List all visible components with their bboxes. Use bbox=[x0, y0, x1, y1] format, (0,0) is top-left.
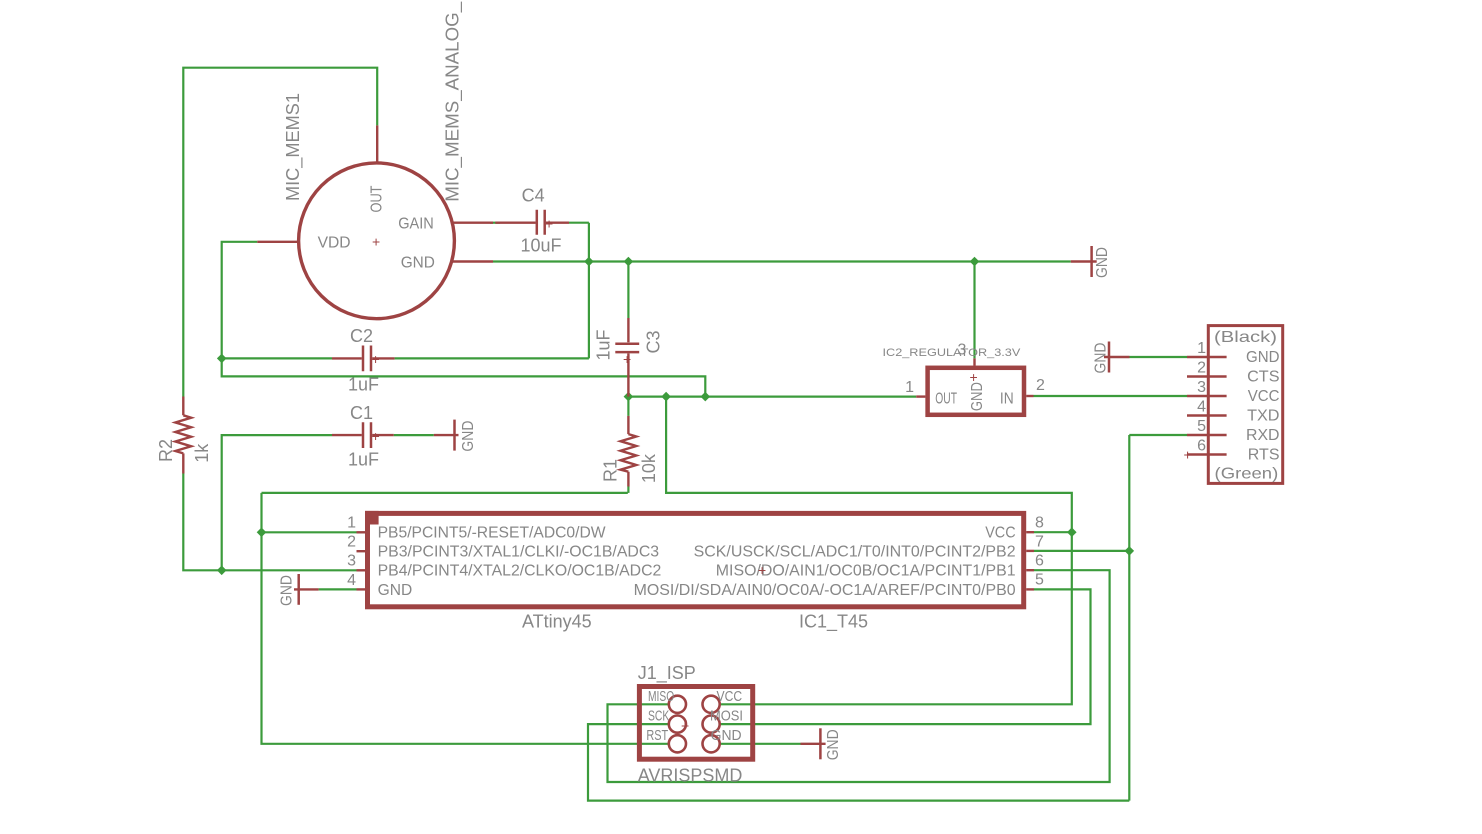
svg-text:1uF: 1uF bbox=[348, 375, 379, 395]
wire riser x588.9 C4 elbow to C2 bbox=[588, 223, 590, 359]
pin 8 stub of IC1 bbox=[1026, 531, 1034, 533]
svg-text:VCC: VCC bbox=[1248, 388, 1280, 405]
svg-text:C1: C1 bbox=[350, 403, 373, 423]
svg-text:PB5/PCINT5/-RESET/ADC0/DW: PB5/PCINT5/-RESET/ADC0/DW bbox=[378, 525, 607, 542]
capacitor C3 bbox=[615, 318, 639, 397]
pin 4 stub of IC1 bbox=[357, 588, 366, 590]
junction node RESET bbox=[257, 528, 267, 538]
wire serial GND pin bbox=[1130, 356, 1188, 358]
resistor R2 bbox=[175, 397, 191, 474]
svg-text:(Black): (Black) bbox=[1214, 329, 1277, 346]
svg-text:GND: GND bbox=[460, 421, 477, 452]
svg-text:AVRISPSMD: AVRISPSMD bbox=[638, 766, 743, 786]
ground symbol at IC1 pin 4 bbox=[279, 574, 319, 606]
junction node GND at C3 bbox=[624, 257, 634, 267]
wire net PB1: IC pin 6 to J1 MISO bbox=[608, 570, 1110, 782]
svg-text:6: 6 bbox=[1035, 552, 1044, 569]
pin pad SCK of J1 bbox=[669, 716, 686, 733]
svg-text:+: + bbox=[372, 428, 380, 444]
svg-text:+: + bbox=[545, 216, 553, 232]
svg-text:GAIN: GAIN bbox=[398, 216, 434, 233]
wire net 3V3: mic VDD down, across to rail bbox=[222, 242, 706, 397]
wire C4 right elbow bbox=[569, 222, 589, 224]
pin 2 stub of IC1 bbox=[357, 550, 366, 552]
pin 6 stub of X1 bbox=[1187, 453, 1227, 455]
pin 5 stub of X1 bbox=[1187, 434, 1227, 436]
svg-text:MOSI: MOSI bbox=[710, 708, 743, 725]
svg-text:CTS: CTS bbox=[1247, 369, 1279, 386]
svg-text:GND: GND bbox=[378, 582, 413, 599]
junction node C2/3V3 bbox=[217, 354, 227, 364]
svg-text:SCK: SCK bbox=[648, 708, 669, 725]
svg-text:VCC: VCC bbox=[985, 525, 1015, 542]
regulator IC2 bbox=[928, 368, 1024, 415]
wire regulator IN to serial VCC bbox=[1034, 395, 1188, 397]
svg-text:+: + bbox=[758, 562, 766, 578]
pin 3 stub of IC2 bbox=[973, 358, 975, 365]
wire mic GAIN to C4 bbox=[490, 222, 500, 224]
svg-text:IC2_REGULATOR_3.3V: IC2_REGULATOR_3.3V bbox=[883, 347, 1022, 359]
pin pad MOSI of J1 bbox=[703, 716, 720, 733]
svg-text:3: 3 bbox=[1197, 379, 1206, 396]
svg-text:GND: GND bbox=[1094, 247, 1111, 278]
svg-text:GND: GND bbox=[1246, 349, 1280, 366]
junction node PB4 bbox=[217, 566, 227, 576]
svg-text:OUT: OUT bbox=[368, 185, 385, 212]
wire net 3V3 rail to regulator OUT bbox=[628, 396, 916, 398]
svg-text:MIC_MEMS_ANALOG_: MIC_MEMS_ANALOG_ bbox=[443, 1, 464, 202]
svg-text:PB3/PCINT3/XTAL1/CLKI/-OC1B/AD: PB3/PCINT3/XTAL1/CLKI/-OC1B/ADC3 bbox=[378, 544, 660, 561]
junction node 3V3 at C3/R1 bbox=[624, 392, 634, 402]
svg-text:GND: GND bbox=[969, 382, 986, 411]
IC IC1 ATtiny45 bbox=[365, 511, 1024, 607]
svg-text:1k: 1k bbox=[192, 443, 212, 463]
svg-text:RST: RST bbox=[646, 727, 668, 744]
svg-text:ATtiny45: ATtiny45 bbox=[522, 612, 592, 632]
wire net PB2 vertical bbox=[1128, 435, 1130, 801]
junction node 3V3 at VCC branch bbox=[661, 392, 671, 402]
pin 2 stub of X1 bbox=[1187, 375, 1227, 377]
wire R1 bottom sliver bbox=[627, 487, 629, 493]
pin pad VCC of J1 bbox=[703, 696, 720, 713]
svg-text:+: + bbox=[623, 351, 631, 367]
wire C3 top tap bbox=[627, 262, 629, 319]
pin pad RST of J1 bbox=[669, 735, 686, 752]
connector J1 ISP bbox=[639, 687, 752, 760]
wire net GND rail bbox=[493, 260, 1071, 262]
wire net PB0: IC pin 5 to J1 MOSI bbox=[720, 589, 1090, 724]
svg-text:C3: C3 bbox=[644, 330, 664, 353]
svg-text:RTS: RTS bbox=[1248, 447, 1280, 464]
svg-text:VCC: VCC bbox=[717, 688, 743, 705]
svg-text:4: 4 bbox=[347, 572, 356, 589]
wire net VCC: rail to pin8 riser to J1 VCC bbox=[666, 397, 1072, 705]
svg-text:4: 4 bbox=[1197, 399, 1206, 416]
svg-text:PB4/PCINT4/XTAL2/CLKO/OC1B/ADC: PB4/PCINT4/XTAL2/CLKO/OC1B/ADC2 bbox=[378, 563, 662, 580]
svg-text:(Green): (Green) bbox=[1215, 466, 1279, 483]
pin 1 stub of IC2 bbox=[916, 395, 925, 397]
svg-text:+: + bbox=[372, 234, 380, 250]
svg-text:1uF: 1uF bbox=[594, 329, 614, 360]
capacitor C2 bbox=[332, 346, 395, 372]
ground symbol at J1 bbox=[801, 728, 843, 760]
svg-text:1uF: 1uF bbox=[348, 450, 379, 470]
wire net PB4: R2 bottom to IC pin 3 bbox=[183, 474, 356, 571]
svg-text:GND: GND bbox=[279, 575, 296, 606]
pin pad MISO of J1 bbox=[669, 696, 686, 713]
junction node VCC at IC pin 8 bbox=[1067, 527, 1077, 537]
svg-text:C2: C2 bbox=[350, 326, 373, 346]
wire IC pin 4 to GND symbol bbox=[319, 588, 357, 590]
wire net PB2 bottom to J1 SCK bbox=[588, 724, 1129, 801]
wire J1 GND pin bbox=[720, 743, 800, 745]
svg-text:1: 1 bbox=[347, 515, 356, 532]
svg-text:MOSI/DI/SDA/AIN0/OC0A/-OC1A/AR: MOSI/DI/SDA/AIN0/OC0A/-OC1A/AREF/PCINT0/… bbox=[634, 582, 1016, 599]
junction node GND at regulator bbox=[970, 257, 980, 267]
wire IC pin 8 bbox=[1034, 531, 1072, 533]
svg-text:MIC_MEMS1: MIC_MEMS1 bbox=[283, 93, 304, 201]
svg-text:R2: R2 bbox=[156, 439, 176, 462]
svg-text:6: 6 bbox=[1197, 438, 1206, 455]
svg-text:RXD: RXD bbox=[1246, 427, 1280, 444]
svg-text:2: 2 bbox=[1036, 377, 1045, 394]
pin 4 stub of X1 bbox=[1187, 414, 1227, 416]
wire IC pin 1 bbox=[262, 531, 357, 533]
svg-text:10k: 10k bbox=[639, 453, 659, 483]
ground symbol at C1 bbox=[434, 420, 477, 452]
resistor R1 bbox=[621, 416, 637, 487]
svg-text:2: 2 bbox=[1197, 360, 1206, 377]
pin GAIN stub of MIC_MEMS1 bbox=[452, 221, 493, 223]
svg-text:1: 1 bbox=[905, 379, 914, 396]
svg-text:MISO: MISO bbox=[648, 688, 674, 705]
svg-text:3: 3 bbox=[347, 553, 356, 570]
wire IC pin 7 bbox=[1034, 550, 1129, 552]
svg-text:SCK/USCK/SCL/ADC1/T0/INT0/PCIN: SCK/USCK/SCL/ADC1/T0/INT0/PCINT2/PB2 bbox=[694, 544, 1016, 561]
wire regulator GND pin riser bbox=[973, 262, 975, 359]
microphone MIC_MEMS1 bbox=[299, 163, 455, 319]
svg-text:GND: GND bbox=[711, 727, 742, 744]
svg-text:5: 5 bbox=[1197, 418, 1206, 435]
pin 3 stub of X1 bbox=[1187, 395, 1227, 397]
junction node 3V3 at VDD branch bbox=[701, 392, 711, 402]
svg-text:R1: R1 bbox=[600, 459, 620, 482]
svg-text:10uF: 10uF bbox=[521, 236, 562, 256]
svg-text:TXD: TXD bbox=[1247, 408, 1279, 425]
svg-text:IN: IN bbox=[1000, 391, 1014, 408]
svg-text:1: 1 bbox=[1197, 340, 1206, 357]
wire C2 left bbox=[222, 357, 332, 359]
pin pad GND of J1 bbox=[703, 735, 720, 752]
capacitor C4 bbox=[495, 210, 569, 235]
junction node PB2 at IC pin 7 bbox=[1125, 546, 1135, 556]
pin 7 stub of IC1 bbox=[1026, 550, 1034, 552]
ground symbol at serial pin 1 bbox=[1093, 342, 1130, 374]
wire C1 right to GND symbol bbox=[394, 434, 434, 436]
wire RXD to PB2 bbox=[1129, 434, 1187, 436]
svg-text:VDD: VDD bbox=[318, 235, 351, 252]
wire net OUT: mic OUT to R2 top bbox=[183, 68, 377, 397]
wire C2 right to GND rail riser bbox=[395, 357, 589, 359]
wire net RESET horizontal bbox=[262, 492, 628, 494]
svg-text:2: 2 bbox=[347, 534, 356, 551]
wire C1 left to PB4 net bbox=[222, 435, 332, 570]
svg-text:8: 8 bbox=[1035, 514, 1044, 531]
wire R1 top sliver bbox=[627, 397, 629, 416]
svg-text:C4: C4 bbox=[522, 186, 545, 206]
pin 3 stub of IC1 bbox=[357, 569, 366, 571]
pin 5 stub of IC1 bbox=[1026, 588, 1034, 590]
svg-text:GND: GND bbox=[825, 729, 842, 760]
svg-text:+: + bbox=[372, 351, 380, 367]
pin OUT stub of MIC_MEMS1 bbox=[376, 125, 378, 164]
svg-text:GND: GND bbox=[1093, 343, 1110, 374]
ground symbol at GND rail bbox=[1071, 246, 1111, 278]
pin 2 stub of IC2 bbox=[1026, 395, 1033, 397]
pin GND stub of MIC_MEMS1 bbox=[452, 260, 493, 262]
capacitor C1 bbox=[332, 422, 394, 448]
connector X1 serial bbox=[1208, 326, 1282, 484]
svg-text:IC1_T45: IC1_T45 bbox=[799, 612, 868, 633]
svg-text:+: + bbox=[1184, 447, 1192, 463]
svg-text:J1_ISP: J1_ISP bbox=[638, 663, 696, 684]
pin 6 stub of IC1 bbox=[1026, 569, 1034, 571]
wire net RESET vertical to J1 RST bbox=[262, 493, 669, 744]
junction node GND at C4 elbow bbox=[584, 257, 594, 267]
svg-text:7: 7 bbox=[1035, 533, 1044, 550]
pin 1 stub of X1 bbox=[1187, 356, 1227, 358]
svg-text:5: 5 bbox=[1035, 572, 1044, 589]
svg-text:OUT: OUT bbox=[935, 391, 957, 408]
pin 1 stub of IC1 bbox=[357, 531, 366, 533]
svg-text:GND: GND bbox=[401, 254, 435, 271]
pin VDD stub of MIC_MEMS1 bbox=[257, 241, 299, 243]
